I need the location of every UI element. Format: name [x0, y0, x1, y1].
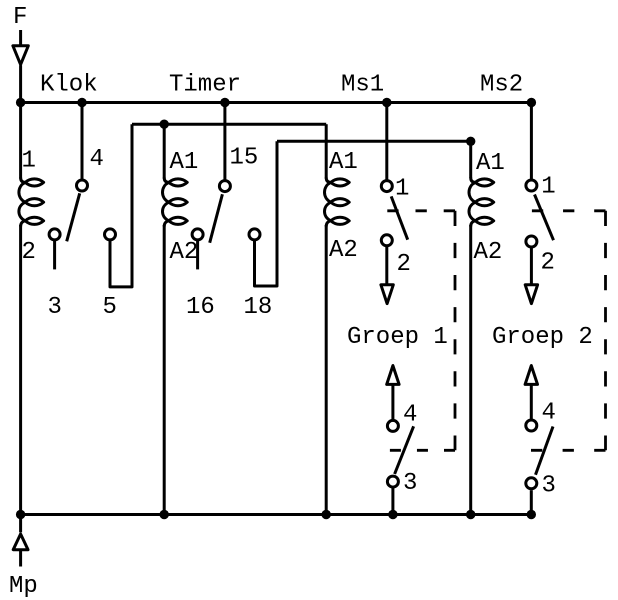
- svg-text:2: 2: [397, 251, 411, 278]
- svg-text:A2: A2: [474, 239, 503, 266]
- svg-text:Ms2: Ms2: [480, 72, 523, 99]
- svg-text:4: 4: [542, 399, 556, 426]
- svg-text:A1: A1: [476, 150, 505, 177]
- coil Timer: [163, 178, 188, 227]
- pin 3 circle (Klok): [49, 229, 60, 240]
- svg-text:3: 3: [403, 470, 417, 497]
- dashed box Groep 2: [531, 211, 606, 450]
- switch blade Klok: [67, 193, 80, 241]
- node Groep1/bus: [388, 510, 397, 519]
- wire Ms1 coil to bottom bus: [325, 225, 328, 515]
- pin 1 circle (Ms1): [381, 181, 392, 192]
- arrow Groep 1 in (up): [387, 366, 399, 385]
- svg-text:2: 2: [22, 239, 36, 266]
- node Ms2 coil/bus: [466, 510, 475, 519]
- wire Ms1 contact feed: [385, 103, 388, 181]
- wire left rail lower: [19, 225, 22, 515]
- node Timer branch: [220, 98, 229, 107]
- wire Timer coil to bottom bus: [163, 225, 166, 515]
- svg-text:A2: A2: [170, 239, 199, 266]
- wire Ms2 contact feed: [530, 103, 533, 180]
- node Ms1 coil/bus: [322, 510, 331, 519]
- node Groep2/bus: [527, 510, 536, 519]
- arrow Groep 2 in (up): [525, 366, 537, 385]
- wire F stub: [19, 30, 22, 46]
- wire Groep1 3 to bottom bus: [391, 488, 394, 515]
- pin 3 circle (Groep2 switch): [526, 478, 537, 489]
- wire Mp stub: [19, 551, 22, 567]
- svg-text:4: 4: [403, 401, 417, 428]
- pin 5 circle (Klok): [105, 229, 116, 240]
- pin 4 circle (Groep1 switch): [387, 420, 398, 431]
- wire Ms2 coil feed: [469, 141, 472, 178]
- pin 16 circle (Timer): [192, 229, 203, 240]
- coil Ms2: [469, 178, 494, 227]
- wire Groep2 arrow to pin 4: [530, 384, 533, 419]
- wire Timer 18 to row3: [255, 141, 278, 286]
- switch blade Groep1: [395, 426, 414, 474]
- wire Ms2 coil to bottom bus: [469, 225, 472, 515]
- wire row3 horizontal: [277, 140, 471, 143]
- svg-text:Ms1: Ms1: [341, 72, 384, 99]
- svg-text:Klok: Klok: [40, 72, 98, 99]
- svg-text:A1: A1: [329, 149, 358, 176]
- svg-text:Timer: Timer: [169, 72, 241, 99]
- node Ms2 branch: [527, 98, 536, 107]
- wire left rail upper: [19, 103, 22, 179]
- pin 4 circle (Klok): [77, 180, 88, 191]
- pin 3 circle (Groep1 switch): [387, 476, 398, 487]
- svg-text:Mp: Mp: [9, 573, 38, 600]
- svg-text:A1: A1: [170, 149, 199, 176]
- node Mp/bus: [16, 510, 25, 519]
- wire Ms1 coil feed: [325, 124, 328, 178]
- dashed box Groep 1: [387, 211, 455, 450]
- bottom bus wire: [19, 513, 534, 516]
- wire Timer coil feed: [163, 124, 166, 178]
- switch blade Ms2: [535, 195, 554, 241]
- svg-text:5: 5: [103, 294, 117, 321]
- wire Ms1 2 to arrow: [385, 247, 388, 285]
- pin 18 circle (Timer): [249, 229, 260, 240]
- pin 2 circle (Ms2): [526, 236, 537, 247]
- wire Groep2 3 to bottom bus: [530, 490, 533, 514]
- svg-text:3: 3: [48, 294, 62, 321]
- arrow F (down): [13, 46, 28, 65]
- wire Mp from bus: [19, 515, 22, 533]
- switch blade Timer: [210, 194, 223, 243]
- wire Groep1 arrow to pin 4: [391, 384, 394, 420]
- svg-text:1: 1: [541, 174, 555, 201]
- switch blade Ms1: [391, 196, 408, 239]
- pin 4 circle (Groep2 switch): [526, 420, 537, 431]
- wire Klok contact 4 feed: [81, 103, 84, 180]
- coil Ms1: [325, 178, 350, 227]
- wire Klok 5 to row2: [110, 124, 132, 287]
- wire F to bus: [19, 65, 22, 102]
- node Ms1 branch: [382, 98, 391, 107]
- svg-text:3: 3: [542, 472, 556, 499]
- node Timer coil/bus: [160, 510, 169, 519]
- arrow Ms2 out (down): [525, 285, 537, 304]
- pin 2 circle (Ms1): [381, 235, 392, 246]
- wire Ms2 2 to arrow: [530, 247, 533, 284]
- switch blade Groep2: [536, 427, 554, 475]
- svg-text:2: 2: [541, 250, 555, 277]
- svg-text:18: 18: [244, 294, 273, 321]
- svg-text:Groep 2: Groep 2: [492, 324, 593, 351]
- svg-text:A2: A2: [329, 237, 358, 264]
- svg-text:4: 4: [90, 146, 104, 173]
- node Klok branch: [77, 98, 86, 107]
- wire Timer 16 stub: [196, 241, 199, 270]
- arrow Ms1 out (down): [381, 285, 393, 304]
- svg-text:16: 16: [186, 294, 215, 321]
- pin 15 circle (Timer): [219, 181, 230, 192]
- svg-text:15: 15: [230, 145, 259, 172]
- node Timer coil tap: [160, 120, 169, 129]
- arrow Mp (up): [13, 534, 28, 550]
- svg-text:Groep 1: Groep 1: [347, 324, 448, 351]
- svg-text:1: 1: [395, 176, 409, 203]
- node Ms2 coil tap: [466, 137, 475, 146]
- svg-text:1: 1: [22, 148, 36, 175]
- svg-text:F: F: [13, 4, 27, 31]
- pin 1 circle (Ms2): [526, 180, 537, 191]
- wire row2 horizontal: [132, 123, 326, 126]
- wire Klok 3 stub: [53, 241, 56, 270]
- wire Timer contact 15 feed: [223, 103, 226, 181]
- node F/bus: [16, 98, 25, 107]
- coil Klok (in left rail): [19, 178, 44, 227]
- top bus wire: [19, 101, 533, 104]
